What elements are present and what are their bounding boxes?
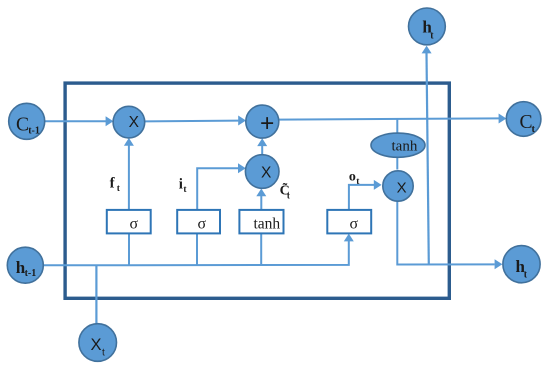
svg-text:X: X [129,114,140,131]
wire sigma4 up and right to X3 [349,180,382,210]
svg-text:t: t [532,124,536,135]
wire Xt up to ht-1 line [95,265,97,324]
wire tanh ellipse to X3 [396,157,398,170]
svg-text:tanh: tanh [254,215,281,232]
svg-text:o: o [349,169,356,184]
node ht-1 [7,247,43,283]
gate box sigma4 [327,210,371,234]
svg-text:C: C [16,115,29,136]
wire drop from C line to tanh ellipse [396,119,398,134]
svg-text:t: t [287,190,290,200]
wire sigma2 down to ht-1 line [196,233,198,265]
svg-text:X: X [261,164,272,181]
wire sigma1 down to ht-1 line [128,233,130,265]
svg-text:f: f [110,176,116,192]
wire ht-1 line across, turning up into sigma4 [44,234,354,266]
svg-text:tanh: tanh [392,138,418,154]
wire Ct-1 to X1 [45,116,114,126]
label ft [110,176,121,195]
svg-text:+: + [260,110,274,137]
svg-text:t: t [102,348,105,359]
node ht top [409,8,446,45]
wire X1 to plus [145,116,246,126]
svg-text:t-1: t-1 [28,125,40,136]
wire sigma1 up to X1 [124,138,134,210]
node Ct-1 [9,103,45,139]
wire tanh box down to ht-1 line [260,233,262,265]
svg-text:i: i [179,176,183,192]
gate tanh ellipse [371,133,425,157]
node ht right [503,246,540,283]
gate X2 multiply [245,155,279,189]
svg-text:X: X [91,336,102,354]
svg-text:σ: σ [198,216,207,233]
gate box sigma2 [177,210,220,234]
label ot [349,169,360,187]
svg-text:X: X [397,180,407,197]
node Xt input [79,324,117,362]
gate X3 multiply [383,171,413,201]
wire tanh box up to X2 [256,189,266,210]
wire X3 down and right to ht [397,201,502,269]
cell boundary rectangle [65,83,449,298]
wire plus to Ct [279,114,507,124]
svg-text:σ: σ [130,216,139,233]
gate plus add [246,105,279,138]
gate box tanh [239,210,283,234]
svg-text:t: t [183,185,187,195]
label it [179,176,188,195]
svg-text:σ: σ [350,216,359,233]
wire X2 up to plus [257,138,267,155]
label C~t [280,181,290,200]
node Ct [506,102,541,137]
gate box sigma1 [107,210,151,234]
wire up to ht top [422,46,432,265]
svg-text:t: t [117,184,121,194]
wire sigma2 up and right to X2 [197,163,246,210]
svg-text:t-1: t-1 [25,268,37,279]
gate X1 multiply [113,106,145,138]
